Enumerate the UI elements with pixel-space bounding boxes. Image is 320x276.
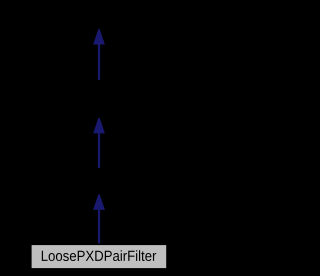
- arrowhead 1: [93, 29, 105, 45]
- inheritance arrow 1 (topmost, to hidden ancestor): [93, 29, 105, 80]
- shaft (wire) 1: [98, 45, 100, 80]
- node label: [42, 250, 156, 261]
- shaft (wire) 3: [98, 210, 100, 243]
- inheritance arrow 2 (middle): [93, 118, 105, 168]
- shaft (wire) 2: [98, 133, 100, 167]
- class node LoosePXDPairFilter (grey75 fill, black border): [31, 245, 167, 269]
- arrowhead 3: [93, 194, 105, 210]
- inheritance arrow 3 (bottom, into class node): [93, 194, 105, 243]
- arrowhead 2: [93, 118, 105, 134]
